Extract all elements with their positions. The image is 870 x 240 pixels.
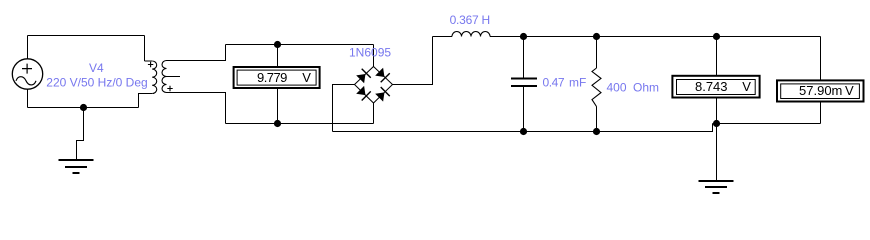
- svg-text:400: 400: [607, 80, 627, 94]
- resistor R1 bottom lead: [596, 107, 598, 132]
- node junction resistor top: [593, 33, 600, 40]
- svg-text:Ohm: Ohm: [633, 80, 659, 94]
- wire source top to rail: [27, 36, 29, 59]
- wire lower link to meter U3: [713, 123, 821, 125]
- voltmeter U3 outer box: [777, 80, 864, 101]
- wire bridge W to bottom rail: [333, 85, 355, 132]
- svg-text:0.47: 0.47: [543, 75, 565, 89]
- wire voltmeter U3 bottom lead: [820, 103, 822, 124]
- svg-text:1N6095: 1N6095: [349, 46, 391, 60]
- wire top rail to transformer primary: [28, 35, 145, 37]
- node junction ground right: [713, 120, 720, 127]
- wire voltmeter U2 bottom lead: [716, 99, 718, 124]
- wire voltmeter U3 top lead: [820, 37, 822, 80]
- capacitor C1 plates: [511, 78, 537, 87]
- transformer T1 secondary polarity plus: [167, 86, 172, 91]
- diode D1b NE: [375, 67, 390, 82]
- wire bridge S down: [373, 103, 375, 124]
- wire inductor to top rail: [490, 36, 821, 38]
- svg-text:V: V: [302, 70, 311, 85]
- AC source V4 circle: [12, 59, 42, 89]
- AC source plus polarity mark: [22, 64, 32, 74]
- node junction voltmeter U1 bottom: [274, 120, 281, 127]
- svg-text:8.743: 8.743: [695, 79, 728, 94]
- svg-text:V: V: [742, 79, 751, 94]
- wire bottom rail bridge to right: [333, 124, 713, 132]
- diode D1c SW: [356, 85, 371, 100]
- node junction voltmeter U2 top: [713, 33, 720, 40]
- resistor R1 top lead: [596, 37, 598, 69]
- wire ground right down: [716, 124, 718, 181]
- wire voltmeter U1 bottom: [277, 89, 279, 124]
- transformer T1 primary bottom lead: [139, 94, 153, 108]
- transformer T1 primary top jog: [145, 60, 153, 62]
- wire bottom rail to transformer primary bottom: [28, 107, 139, 109]
- transformer T1 center tap stub: [167, 76, 181, 78]
- capacitor C1 bottom lead: [523, 87, 525, 132]
- resistor R1 zigzag: [592, 68, 601, 107]
- wire bottom rail to bridge S: [226, 123, 374, 125]
- node junction capacitor bottom: [520, 128, 527, 135]
- wire source bottom: [27, 89, 29, 107]
- wire secondary top rail to bridge: [226, 44, 374, 46]
- voltmeter U1 outer box: [234, 67, 320, 88]
- AC source sine wave: [16, 77, 36, 85]
- svg-text:57.90m: 57.90m: [799, 83, 842, 98]
- svg-text:220 V/50 Hz/0 Deg: 220 V/50 Hz/0 Deg: [46, 75, 147, 89]
- node junction voltmeter U1 top: [274, 41, 281, 48]
- transformer T1 primary winding: [152, 61, 157, 94]
- transformer T1 secondary winding: [162, 61, 167, 93]
- bridge rectifier D1 diamond edges: [355, 67, 393, 104]
- inductor L1: [452, 32, 490, 37]
- capacitor C1 top lead: [523, 37, 525, 78]
- wire bridge N up: [373, 45, 375, 67]
- svg-text:V: V: [845, 83, 854, 98]
- node junction capacitor top: [520, 33, 527, 40]
- wire E corner to inductor: [433, 36, 453, 38]
- voltmeter U2 outer box: [672, 76, 759, 98]
- wire voltmeter U1 top: [277, 45, 279, 67]
- svg-text:mF: mF: [569, 75, 586, 89]
- transformer T1 primary lead: [144, 36, 146, 62]
- wire secondary bottom lead: [167, 93, 226, 124]
- ground GND2: [699, 181, 734, 193]
- wire secondary top lead: [167, 45, 226, 61]
- diode D1a NW: [356, 69, 371, 84]
- svg-text:V4: V4: [89, 61, 104, 75]
- svg-text:9.779: 9.779: [257, 70, 287, 85]
- transformer T1 primary polarity plus: [148, 62, 153, 67]
- svg-text:0.367 H: 0.367 H: [450, 13, 491, 27]
- node junction at ground tap: [80, 104, 87, 111]
- diode D1d SE: [375, 87, 390, 102]
- voltmeter U1 inner display: [237, 70, 316, 85]
- wire voltmeter U2 top lead: [716, 37, 718, 75]
- wire bridge E to top: [393, 37, 433, 85]
- voltmeter U3 inner display: [781, 84, 860, 99]
- wire junction down to ground: [77, 108, 84, 161]
- voltmeter U2 inner display: [677, 80, 756, 95]
- node junction resistor bottom: [593, 128, 600, 135]
- ground GND1: [59, 160, 94, 173]
